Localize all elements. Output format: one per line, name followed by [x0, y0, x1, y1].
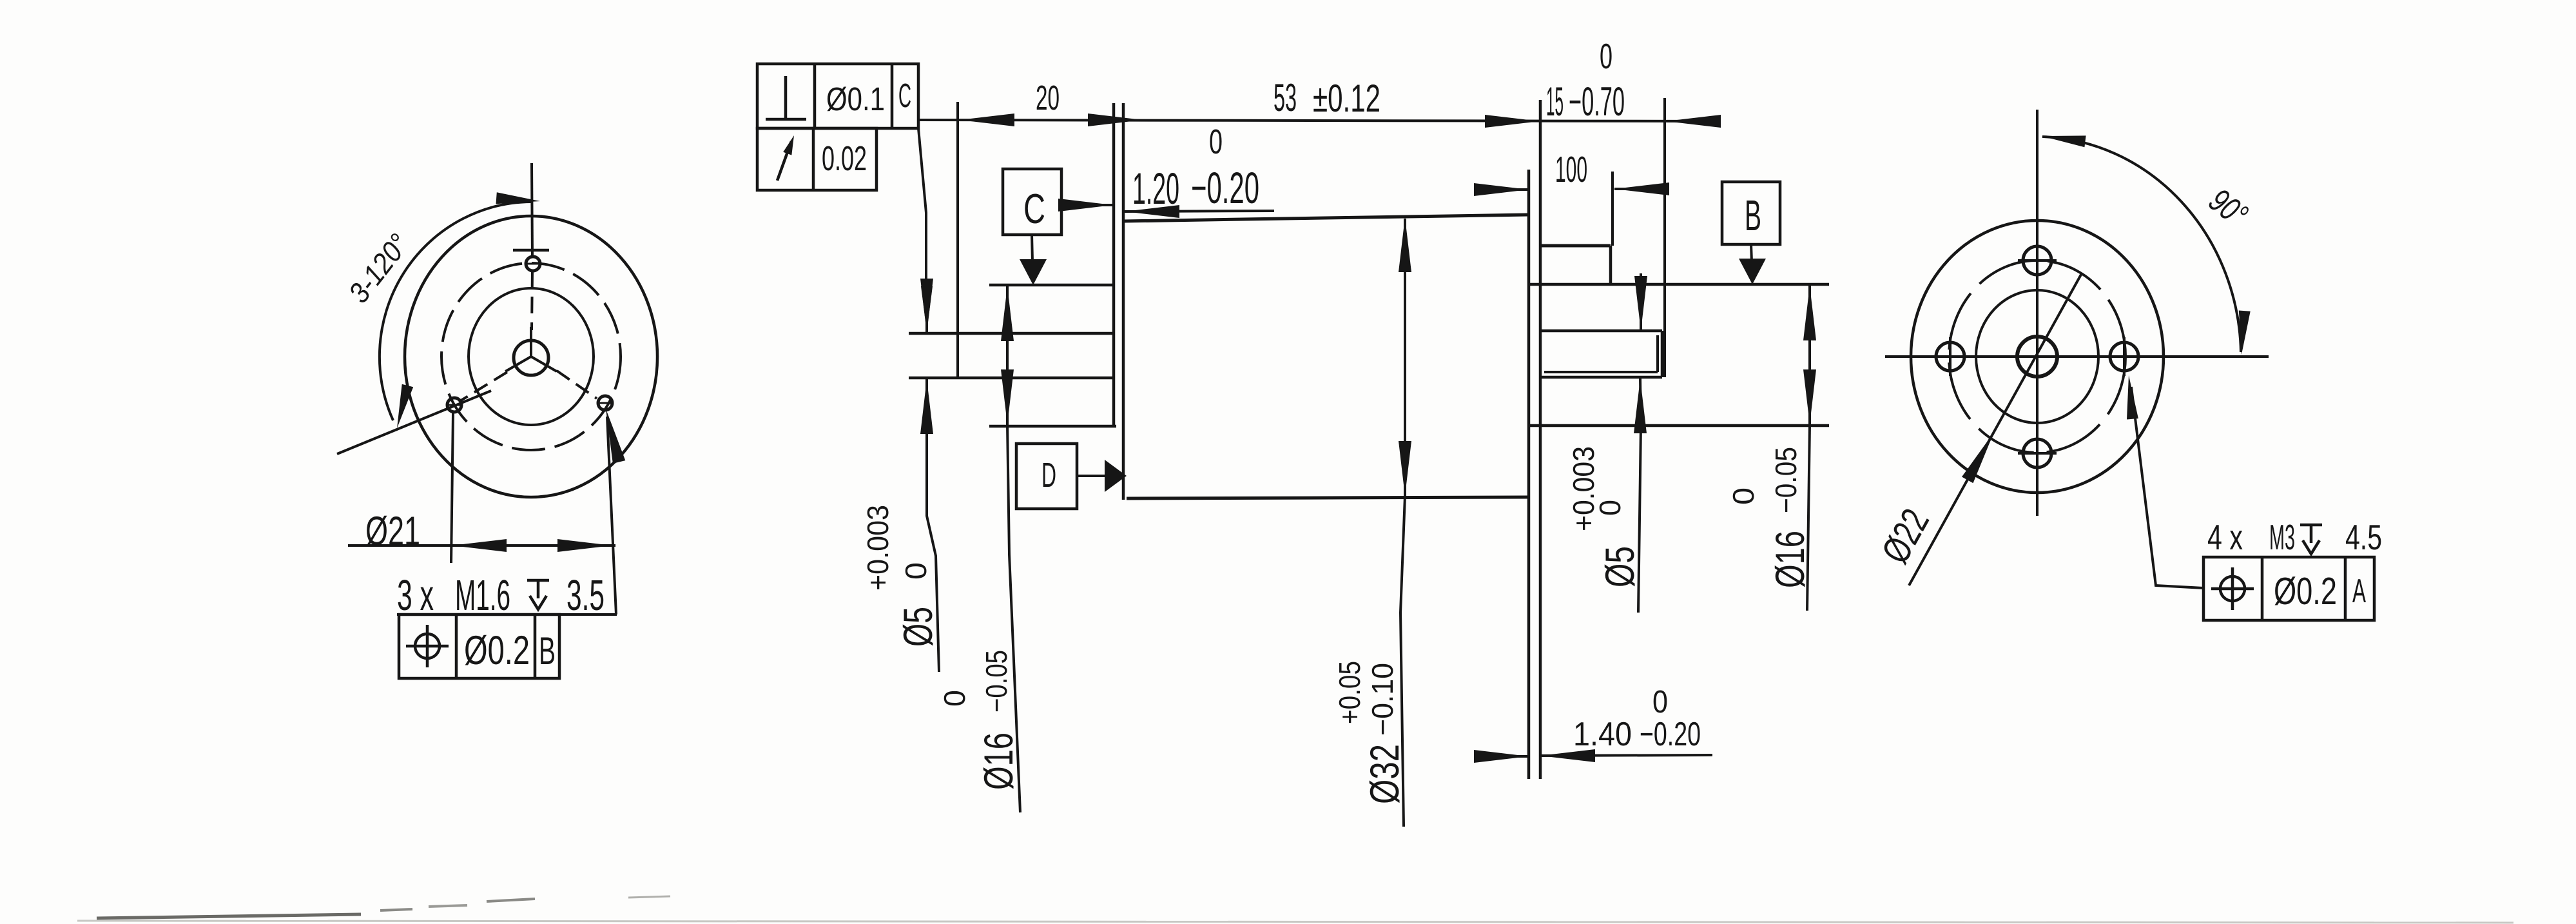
left view: FCF-B position symbol — [415, 634, 440, 658]
right shaft chamfer line — [1656, 335, 1659, 372]
dim O16-right tail — [1807, 424, 1810, 611]
right view: FCF-A position symbol — [2220, 576, 2245, 601]
left view: O21 arrow left — [452, 539, 507, 552]
left view: leader arrow to hole — [606, 409, 625, 464]
svg-text:20: 20 — [1036, 79, 1060, 117]
right view: 90deg arc — [2042, 137, 2241, 352]
left view: radial dash to lower-left hole — [459, 372, 507, 402]
svg-text:3.5: 3.5 — [567, 571, 605, 620]
dim 1.20 line left — [1061, 204, 1113, 206]
right view: horizontal center line — [1885, 355, 2269, 358]
svg-text:3 x: 3 x — [397, 571, 434, 620]
dim 20 arrow left — [960, 113, 1014, 126]
left view: pilot boss circle (O16) — [469, 288, 594, 425]
scan artifact bottom strip — [97, 914, 361, 918]
svg-text:Ø0.2: Ø0.2 — [464, 628, 530, 673]
dim 20/53 arrow middle — [1088, 113, 1143, 126]
left view: vertical center line above — [532, 163, 532, 257]
dim O5-left tail — [927, 379, 939, 672]
dim O16-left tail — [1007, 424, 1020, 812]
FCF perpendicularity frame row1 — [757, 64, 918, 128]
right view: FCF-A leader arrow — [2127, 375, 2138, 420]
datum B frame — [1722, 182, 1780, 244]
left view: O21 dimension line — [348, 544, 615, 547]
svg-text:1.20: 1.20 — [1132, 164, 1179, 213]
right boss top line (datum B surface) — [1529, 283, 1829, 286]
dim 53 arrow right — [1485, 115, 1540, 128]
dim 100 arrow right — [1614, 182, 1669, 195]
svg-text:B: B — [539, 629, 556, 673]
body bottom line — [1127, 497, 1529, 498]
left shaft bottom line — [909, 377, 1115, 380]
dim O5-left upper segment — [925, 298, 928, 332]
svg-text:C: C — [898, 77, 911, 115]
dim 1.40 line right — [1540, 755, 1712, 756]
svg-text:+0.003: +0.003 — [861, 505, 895, 591]
right view: FCF-A frame — [2203, 557, 2374, 620]
right view: bolt circle O22 (dashed) — [1949, 260, 2126, 453]
datum C stem — [1032, 235, 1032, 262]
dim O5-left upper arrow — [920, 279, 933, 333]
svg-text:−0.70: −0.70 — [1569, 79, 1625, 124]
right view: four mounting holes — [2023, 246, 2051, 275]
left view: O21 ext line left — [451, 413, 453, 563]
svg-text:M3: M3 — [2269, 517, 2295, 557]
left view: shaft circle (O5) — [514, 340, 548, 375]
dim O16-left arrow down — [1001, 369, 1014, 424]
left view: arc arrow bottom — [397, 384, 413, 428]
left view: slanted line through lower-left hole — [337, 391, 491, 454]
dim O16-right arrow down — [1803, 369, 1816, 424]
svg-text:M1.6: M1.6 — [455, 571, 510, 620]
FCF runout symbol — [777, 141, 791, 181]
left shaft end face — [956, 102, 959, 377]
svg-text:0: 0 — [1652, 684, 1668, 720]
datum D frame — [1016, 444, 1077, 509]
right collar step — [1609, 246, 1612, 284]
svg-text:+0.05: +0.05 — [1333, 661, 1366, 724]
svg-text:−0.10: −0.10 — [1366, 663, 1399, 736]
svg-text:Ø21: Ø21 — [365, 509, 420, 554]
svg-text:−0.05: −0.05 — [1769, 447, 1803, 513]
svg-text:53: 53 — [1273, 75, 1297, 119]
body top line — [1123, 215, 1528, 221]
dim 100 line left — [1476, 188, 1529, 191]
left view: callout underline — [397, 613, 617, 616]
body right face outer line — [1527, 170, 1531, 779]
left boss top line — [989, 284, 1115, 287]
svg-text:Ø16: Ø16 — [976, 732, 1022, 790]
left view: radial dash to lower-right hole — [557, 371, 597, 398]
svg-text:Ø5: Ø5 — [1598, 546, 1643, 587]
svg-text:±0.12: ±0.12 — [1313, 76, 1380, 120]
svg-text:0: 0 — [1209, 123, 1223, 161]
dim O16-left line — [1006, 286, 1009, 424]
svg-text:0.02: 0.02 — [822, 140, 867, 178]
svg-text:Ø32: Ø32 — [1362, 744, 1408, 804]
dim O5-right upper arrow — [1634, 276, 1647, 331]
dim O5-right lower arrow — [1634, 378, 1647, 433]
svg-text:0: 0 — [1593, 500, 1627, 516]
dim O16-left arrow up — [1001, 286, 1014, 341]
body right face inner line — [1539, 100, 1542, 779]
datum D triangle — [1105, 460, 1127, 492]
FCF runout frame row2 — [757, 128, 876, 190]
left view: FCF-B frame — [399, 614, 559, 678]
right view: O22 leader line — [1909, 273, 2082, 585]
svg-text:Ø16: Ø16 — [1768, 531, 1813, 588]
dim 1.20 arrow left — [1058, 199, 1113, 211]
datum B triangle — [1739, 259, 1766, 284]
left view: shaft center Y-spokes — [530, 327, 532, 357]
svg-text:0: 0 — [899, 562, 933, 580]
left view: screw hole top — [526, 257, 540, 271]
dim 1.20 line right — [1125, 211, 1274, 211]
dim O5-left lower arrow — [920, 379, 933, 434]
svg-text:D: D — [1041, 457, 1056, 495]
dim O32 tail — [1400, 496, 1405, 827]
dim 15 arrow right — [1666, 115, 1721, 128]
left view: 3-120 angle arc — [380, 202, 532, 420]
right view: arc arrow top — [2042, 135, 2086, 147]
dim 100 line right — [1614, 188, 1665, 190]
svg-text:0: 0 — [1600, 36, 1612, 76]
datum C frame — [1003, 169, 1061, 235]
left boss bottom line — [989, 425, 1116, 428]
right view: outer circle — [1911, 221, 2164, 493]
dim 100 ext line — [1611, 172, 1614, 246]
left view: arc arrow top — [496, 192, 541, 204]
svg-text:4 x: 4 x — [2207, 517, 2243, 557]
dim O32 line — [1404, 219, 1406, 496]
svg-text:0: 0 — [1727, 487, 1760, 505]
svg-text:+0.003: +0.003 — [1567, 446, 1600, 531]
right shaft end face — [1661, 331, 1664, 377]
left view: leader/ext line right — [607, 417, 616, 614]
dim O32 arrow up — [1399, 217, 1411, 272]
right view: vertical center line — [2036, 110, 2039, 516]
svg-text:B: B — [1745, 192, 1761, 240]
dim O16-right line — [1808, 286, 1811, 424]
dim 1.40 arrow left — [1474, 750, 1529, 763]
svg-text:−0.20: −0.20 — [1640, 716, 1701, 753]
dim O5-right tail — [1638, 378, 1641, 613]
svg-text:1.40: 1.40 — [1573, 716, 1632, 753]
right shaft top line — [1540, 329, 1662, 333]
FCF perpendicularity symbol — [784, 76, 788, 119]
right shaft bottom line — [1540, 376, 1662, 379]
dim O32 arrow down — [1399, 441, 1411, 496]
svg-text:Ø5: Ø5 — [896, 607, 941, 647]
left shaft top line — [909, 332, 1115, 335]
right view: arc arrow bottom — [2239, 311, 2251, 355]
body left face inner line — [1122, 103, 1125, 500]
svg-text:100: 100 — [1555, 149, 1587, 190]
datum B stem — [1751, 244, 1752, 262]
left view: motor body outer circle (O32) — [405, 216, 657, 497]
svg-text:Ø0.2: Ø0.2 — [2274, 570, 2337, 613]
dim 1.40 line left — [1476, 755, 1529, 758]
left view: tick above top screw hole — [513, 249, 549, 252]
left view: screw hole lower-left — [447, 398, 461, 412]
left view: bolt circle O21 (dashed) — [441, 263, 621, 450]
right boss bottom line — [1530, 424, 1829, 428]
main dimension line — [920, 120, 1713, 121]
svg-text:4.5: 4.5 — [2345, 517, 2382, 557]
svg-text:Ø0.1: Ø0.1 — [826, 81, 885, 117]
dim 1.40 arrow right — [1540, 749, 1595, 762]
left view: text 3-120deg — [342, 228, 416, 309]
right view: O22 arrow — [1962, 432, 1994, 483]
dim 1.20 arrow right — [1125, 205, 1179, 218]
left view: vertical center dash to center — [532, 271, 532, 330]
right view: shaft hole (O5) — [2017, 337, 2057, 377]
svg-text:−0.05: −0.05 — [980, 650, 1013, 713]
datum C triangle — [1020, 259, 1047, 285]
dim 100 arrow left — [1474, 183, 1529, 196]
dim O5-right upper segment — [1640, 273, 1642, 329]
svg-text:C: C — [1023, 186, 1045, 232]
svg-text:0: 0 — [938, 690, 971, 707]
FCF leader line — [918, 128, 926, 303]
body left face outer line — [1112, 103, 1116, 426]
dim O16-right arrow up — [1803, 286, 1816, 340]
left view: screw hole lower-right — [598, 396, 612, 410]
right view: FCF-A leader — [2131, 387, 2203, 588]
svg-text:−0.20: −0.20 — [1191, 163, 1259, 213]
right view: boss circle (O16) — [1976, 290, 2098, 423]
svg-text:15: 15 — [1546, 79, 1564, 124]
right view: text 90deg — [2202, 182, 2254, 234]
right ext line shaft end — [1663, 98, 1666, 377]
right shaft flat line — [1544, 371, 1658, 373]
svg-text:A: A — [2352, 573, 2366, 610]
right collar top line — [1540, 244, 1611, 248]
datum D leader — [1077, 475, 1105, 477]
left view: O21 arrow right — [557, 539, 612, 552]
FCF leader arrow — [921, 286, 933, 331]
